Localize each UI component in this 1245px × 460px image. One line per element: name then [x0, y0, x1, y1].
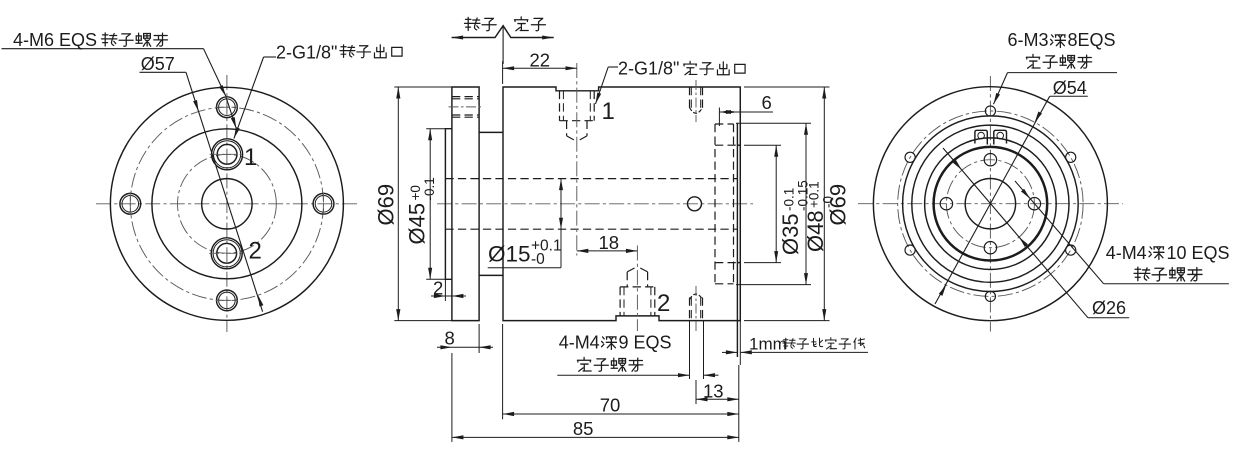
left view outer circle Ø69	[110, 87, 343, 320]
dimension 2	[444, 279, 446, 301]
svg-text:8EQS: 8EQS	[1068, 30, 1116, 50]
middle view main centerline	[437, 203, 753, 205]
svg-text:2: 2	[657, 290, 670, 317]
right view horizontal centerline	[858, 203, 1123, 205]
leader 4-M4 through right M4 hole	[1015, 181, 1104, 284]
svg-text:18: 18	[599, 232, 620, 253]
dimension 18	[577, 250, 638, 252]
dimension 70	[502, 324, 504, 419]
G1/8 rotor port 2	[211, 238, 242, 269]
svg-text:Ø45: Ø45	[405, 203, 430, 245]
stator counterbore Ø48 hidden rectangle	[714, 124, 716, 284]
right view bolt circle Ø54 (dash-dot)	[898, 111, 1083, 296]
leader tick of 2-G1/8 rotor label	[264, 56, 276, 58]
radial hole on centerline	[688, 197, 702, 211]
svg-text:70: 70	[600, 395, 621, 416]
right view outer circle Ø69	[873, 87, 1107, 321]
svg-text:9 EQS: 9 EQS	[619, 333, 672, 353]
M4 tapped hole (rotor)	[940, 198, 952, 210]
dimension Ø69 stator (rotated)	[744, 86, 830, 88]
M3 tapped hole 5	[1066, 245, 1076, 255]
svg-text:4-M6 EQS: 4-M6 EQS	[13, 30, 97, 50]
Ø35 visible stubs at end gap	[737, 144, 740, 146]
rotor neck outline	[479, 132, 503, 275]
svg-text:10 EQS: 10 EQS	[1167, 243, 1230, 263]
underline of 4-M6 label	[2, 48, 204, 50]
M6 tapped hole bottom	[217, 290, 238, 311]
svg-text:-0: -0	[531, 251, 545, 268]
right view circle Ø51 counterbore lip	[903, 116, 1079, 292]
svg-text:4-M4: 4-M4	[1106, 243, 1147, 263]
dimension 6	[718, 108, 720, 127]
svg-text:-0.1: -0.1	[782, 188, 797, 211]
rotor right end face line	[736, 123, 738, 357]
svg-text:4-M4: 4-M4	[559, 333, 600, 353]
rotor flange outline Ø69	[452, 87, 479, 321]
svg-text:-0.1: -0.1	[422, 177, 437, 200]
dimension Ø35 with tolerance (rotated)	[744, 144, 781, 146]
svg-text:Ø35: Ø35	[778, 213, 803, 255]
svg-text:85: 85	[573, 418, 594, 439]
svg-text:1: 1	[602, 98, 615, 125]
Ø54 leader line across circle	[935, 96, 1050, 304]
left view center bore Ø15	[202, 179, 252, 229]
M4 tapped hole top (hidden)	[689, 87, 691, 109]
anti-rotation tab detail	[975, 130, 987, 144]
port 1 centerline	[576, 63, 578, 256]
svg-text:Ø54: Ø54	[1053, 78, 1087, 98]
right view M4 pitch circle Ø26 (dash-dot)	[946, 160, 1034, 248]
svg-text:2-G1/8": 2-G1/8"	[618, 59, 679, 79]
underline-leader of 4-M4 rotor label	[1104, 283, 1229, 285]
M3 tapped hole 3	[1066, 152, 1076, 162]
stator body outline Ø69	[503, 87, 740, 321]
M4 tapped hole (rotor)	[984, 242, 996, 254]
stator bore Ø35 hidden lines	[715, 144, 737, 146]
svg-text:Ø15: Ø15	[488, 242, 531, 267]
M4 tapped hole (rotor)	[1028, 198, 1040, 210]
left view horizontal centerline	[96, 203, 358, 205]
left view port pitch circle (dash-dot)	[178, 154, 277, 253]
svg-text:8: 8	[445, 327, 455, 348]
dimension 13	[695, 380, 697, 404]
underline-leader of 6-M3 label	[1008, 72, 1118, 74]
rotor pilot boss Ø45 outline	[445, 129, 452, 280]
svg-text:+0.1: +0.1	[807, 181, 822, 208]
M3 tapped hole 2	[905, 152, 915, 162]
left view vertical centerline	[226, 75, 228, 332]
svg-text:1: 1	[244, 144, 257, 171]
svg-text:Ø69: Ø69	[374, 184, 399, 226]
svg-text:+0: +0	[408, 185, 423, 200]
svg-text:2-G1/8": 2-G1/8"	[276, 43, 337, 63]
dimension 22	[502, 61, 504, 84]
svg-text:Ø26: Ø26	[1092, 298, 1126, 318]
dimension Ø48 with tolerance (rotated)	[736, 122, 811, 124]
M3 tapped hole 1	[985, 106, 995, 116]
dimension Ø69 flange (rotated)	[394, 86, 452, 88]
svg-text:6-M3: 6-M3	[1008, 30, 1049, 50]
left view circle Ø45	[152, 129, 302, 279]
svg-text:6: 6	[762, 92, 772, 113]
M6 tapped hole left	[120, 193, 141, 214]
port 2 centerline	[636, 246, 638, 332]
leader 2-G1/8 to port 1	[234, 57, 264, 139]
right view bold circle Ø34	[934, 147, 1048, 261]
stator port 1 G1/8 hidden thread	[559, 91, 561, 121]
svg-text:Ø69: Ø69	[826, 184, 851, 226]
dimension 8	[478, 324, 480, 353]
rotor-stator divider annotation	[452, 26, 554, 38]
M4 tapped hole bottom (hidden)	[689, 298, 691, 321]
svg-text:2: 2	[433, 278, 443, 299]
dimension Ø15 with tolerance	[560, 179, 562, 268]
left view bolt circle Ø57 (dash-dot)	[130, 107, 323, 300]
svg-text:2: 2	[249, 238, 262, 265]
flange M6 tapped hole top (hidden lines)	[452, 96, 479, 98]
right view circle Ø39	[925, 138, 1057, 270]
Ø57 leader line across circle	[186, 72, 263, 311]
underline of Ø57 label	[140, 71, 186, 73]
right view center bore Ø15	[965, 179, 1015, 229]
svg-text:13: 13	[703, 381, 724, 402]
dimension Ø45 with tolerance (rotated)	[426, 128, 445, 130]
M4 tapped hole (rotor)	[984, 154, 996, 166]
svg-text:22: 22	[530, 49, 551, 70]
dimension 1mm rotor lower than stator	[738, 365, 740, 442]
leader 4-M6 to top bolt hole	[204, 49, 226, 96]
M6 tapped hole right	[313, 193, 334, 214]
M3 tapped hole 4	[905, 245, 915, 255]
right view circle Ø45	[912, 125, 1069, 282]
dimension 85	[451, 353, 453, 442]
svg-text:Ø57: Ø57	[141, 54, 175, 74]
G1/8 rotor port 1	[212, 139, 243, 170]
M6 tapped hole top	[217, 97, 238, 118]
leader 4-M6 continuation through hole	[226, 97, 236, 129]
svg-text:1mm: 1mm	[749, 335, 787, 354]
underline-leader of 4-M4 label	[557, 374, 689, 376]
rotor bore Ø15 hidden lines	[445, 178, 737, 180]
stator port 2 G1/8 hidden thread	[619, 287, 621, 316]
M3 tapped hole 6	[985, 291, 995, 301]
Ø26 leader line across circle	[943, 148, 1088, 318]
right view vertical centerline	[989, 76, 991, 332]
